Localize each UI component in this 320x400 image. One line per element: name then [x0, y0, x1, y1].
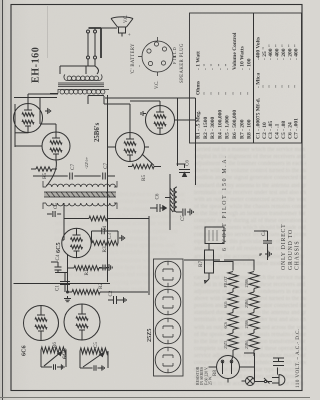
transformer T1 driver	[43, 181, 117, 209]
pilot lamp	[242, 377, 255, 386]
resistor R7	[205, 244, 214, 283]
wire AVC bus	[14, 283, 111, 285]
wire heater to box	[209, 356, 255, 367]
stamp box	[205, 227, 224, 244]
wire driver feed	[33, 175, 115, 177]
label C4 grid	[56, 254, 61, 260]
label C4 line	[261, 230, 267, 236]
potentiometer ant coil	[80, 348, 108, 371]
wire T3 leads	[108, 147, 155, 166]
connector speaker plug	[138, 37, 176, 76]
label C7 a	[70, 164, 76, 170]
label plus	[127, 33, 133, 36]
speaker cone	[111, 17, 133, 37]
wire plug cord	[244, 352, 255, 354]
power plug	[272, 375, 285, 386]
capacitor C7 b	[97, 173, 112, 180]
label 110 volt	[295, 328, 301, 388]
transformer T2 output	[58, 74, 109, 94]
resistor heater string 2	[249, 272, 259, 351]
capacitor C7 a	[64, 173, 78, 180]
tube V3 25B6	[116, 133, 145, 162]
label R6	[53, 342, 58, 348]
capacitor C4 line	[260, 231, 272, 260]
tube V5 6C5	[62, 228, 91, 257]
label C6 a	[186, 160, 191, 166]
wire y149	[148, 216, 150, 295]
label 6 volt pilot	[222, 155, 228, 251]
wire C6 feed	[105, 98, 196, 185]
label C7 b	[103, 163, 109, 169]
capacitor C5 filt	[176, 209, 193, 216]
wire speaker lead	[89, 28, 102, 58]
tube V1 25B6	[14, 104, 43, 133]
label R1	[84, 269, 90, 275]
label R5 b	[141, 175, 147, 181]
tube V2 25B6	[42, 132, 70, 160]
label R3	[102, 246, 108, 252]
capacitor C4 grid	[51, 262, 62, 273]
tube 25Z5 rectifier box	[154, 259, 184, 376]
paper crease	[47, 6, 48, 58]
ground V1 cathode	[45, 108, 51, 114]
label C5 grid	[54, 203, 59, 209]
choke filter	[170, 187, 177, 212]
title EH-160	[31, 47, 42, 83]
capacitor line filter	[273, 358, 284, 375]
resistor R1	[74, 266, 99, 271]
capacitor bypass gnd	[99, 264, 112, 271]
tube V7 6C6	[64, 304, 100, 340]
switch SW	[264, 378, 272, 384]
capacitor C6 b	[150, 204, 166, 212]
label 25Z5	[146, 329, 153, 342]
label R7	[198, 261, 204, 267]
note only direct ground	[281, 224, 301, 271]
wire plate bus	[14, 98, 57, 148]
capacitor C6 a	[177, 164, 191, 177]
resistor R5 b	[128, 164, 158, 168]
parts value table box	[190, 13, 302, 143]
note resistor in series	[196, 366, 213, 385]
labels heater string	[224, 276, 249, 349]
tube V6 6C6	[24, 306, 59, 341]
label 6C6 a	[21, 345, 28, 356]
label minus	[137, 65, 143, 67]
resistor R4	[64, 216, 149, 221]
resistor heater string 1	[228, 272, 238, 351]
grid cap V4	[141, 111, 146, 116]
label 25B6's	[94, 122, 101, 142]
capacitor C3	[92, 228, 125, 243]
capacitor C1	[60, 273, 70, 293]
wire plug pins	[60, 28, 117, 74]
wire det plate	[62, 203, 64, 240]
tube V4 25B6	[146, 106, 175, 135]
wire lamp bus	[255, 353, 265, 382]
label 22 mfd	[84, 156, 89, 169]
resistor R3	[91, 241, 118, 246]
label C2	[109, 290, 114, 296]
label R4	[102, 226, 108, 232]
label C battery	[131, 43, 136, 74]
resistor R2	[72, 290, 100, 295]
wire detector grid	[55, 254, 148, 302]
table row text	[196, 32, 300, 139]
label R5	[42, 173, 48, 179]
label VC right	[124, 15, 129, 23]
label C1	[56, 285, 61, 291]
wire B minus bus	[107, 95, 109, 282]
wire heater connections	[213, 260, 254, 361]
label C3	[108, 233, 113, 239]
label C5 pot	[94, 342, 99, 348]
label R2	[98, 283, 104, 289]
ballast R8	[217, 356, 255, 383]
capacitor C2	[108, 296, 126, 304]
potentiometer R6	[41, 347, 66, 370]
resistor R5	[31, 167, 57, 171]
label C5 filt	[181, 215, 186, 221]
label 6C5	[55, 242, 62, 253]
label 6C6 b	[62, 348, 69, 359]
wire plates to output transformer	[28, 94, 160, 133]
wire V2 grid	[47, 160, 57, 186]
scan edge bottom	[0, 397, 310, 398]
label C6 b	[156, 193, 161, 199]
wire misc1	[145, 147, 268, 260]
scan edge left	[2, 0, 3, 400]
label R8	[213, 370, 218, 376]
label SPEAKER PLUG	[180, 43, 185, 83]
label FIELD	[172, 47, 177, 64]
wire output transformer	[50, 66, 104, 104]
label VC left	[155, 81, 160, 89]
capacitor C5 grid	[47, 211, 61, 217]
